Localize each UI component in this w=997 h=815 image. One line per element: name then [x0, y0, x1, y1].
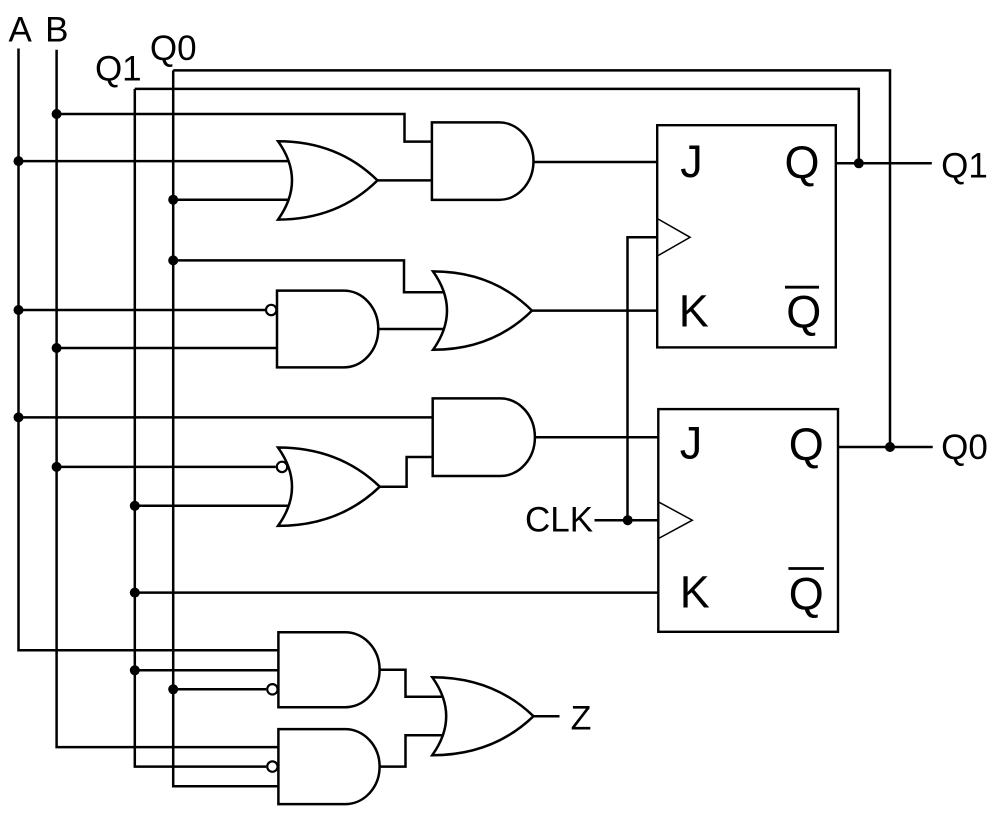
svg-text:B: B [45, 11, 68, 50]
svg-text:K: K [679, 286, 709, 337]
svg-text:Q0: Q0 [941, 428, 988, 467]
svg-text:CLK: CLK [525, 501, 593, 540]
svg-text:J: J [680, 136, 703, 187]
svg-text:Q: Q [784, 137, 819, 188]
svg-text:Q1: Q1 [941, 147, 988, 186]
svg-text:Z: Z [571, 700, 592, 738]
svg-text:A: A [9, 11, 33, 50]
svg-text:Q: Q [789, 569, 824, 620]
svg-text:Q0: Q0 [150, 29, 197, 68]
svg-text:J: J [680, 418, 703, 469]
svg-text:K: K [680, 567, 710, 618]
svg-text:Q: Q [789, 419, 824, 470]
svg-text:Q: Q [786, 287, 821, 338]
svg-text:Q1: Q1 [95, 50, 142, 89]
